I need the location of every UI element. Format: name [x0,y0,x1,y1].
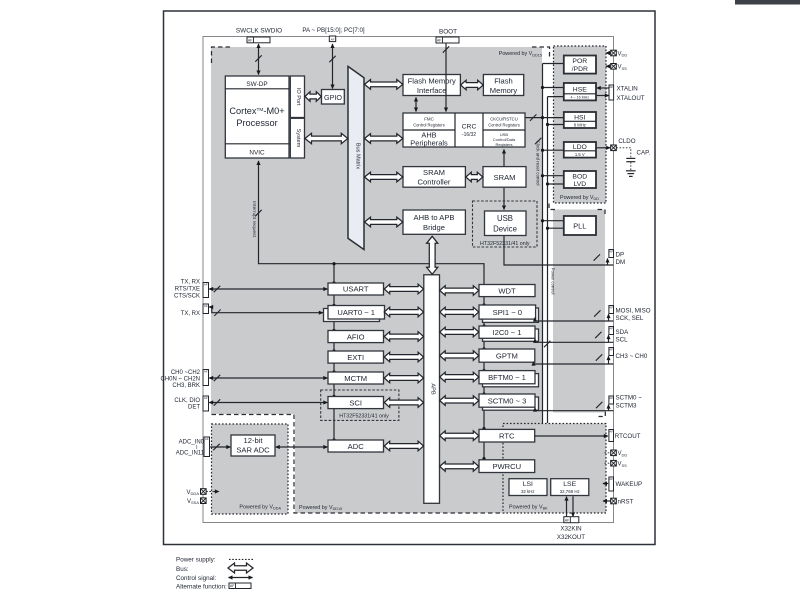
svg-text:/PDR: /PDR [572,66,588,73]
wire interrupt branch right column [483,284,485,460]
svg-text:VDDA: VDDA [187,490,200,496]
svg-text:ADC_IN0: ADC_IN0 [179,440,205,446]
svg-text:AF: AF [609,326,613,330]
svg-text:SWCLK SWDIO: SWCLK SWDIO [236,27,282,34]
AF box X32KIN X32KOUT [564,517,579,523]
wire FMI to FMC registers [415,98,417,112]
AF box WAKEUP [609,477,614,491]
slash on GPIO wire [329,56,335,62]
block LDO [564,142,596,158]
svg-text:WDT: WDT [498,286,516,295]
svg-text:PA ~ PB[15:0]; PC[7:0]: PA ~ PB[15:0]; PC[7:0] [302,27,365,34]
svg-text:CH3, BRK: CH3, BRK [172,383,200,389]
svg-text:XTALOUT: XTALOUT [617,95,645,102]
svg-text:SCL: SCL [616,336,629,343]
slash on power bus [544,341,550,347]
block SCI [328,397,384,409]
junction interrupt wire [332,262,335,265]
grey region VDD15 upper [211,47,542,414]
svg-text:WAKEUP: WAKEUP [616,481,643,488]
svg-text:TX, RX: TX, RX [181,279,200,285]
svg-text:DM: DM [616,259,626,266]
wire nRST [603,500,611,502]
svg-text:HT32F52331/41 only: HT32F52331/41 only [339,413,389,419]
svg-text:Interrupt request: Interrupt request [251,201,257,238]
wire POR stub [543,63,564,65]
slash on SCTM wire [596,402,602,408]
svg-text:-16/32: -16/32 [462,132,476,138]
bus arrow SRAM Controller to SRAM [466,172,483,182]
bus arrow APB to PWRCU [440,462,479,472]
svg-text:SRAM: SRAM [423,168,445,177]
dashed VDD15 boundary top-right corner [532,47,550,59]
wire HSE stubs [543,87,564,89]
bus arrow APB to EXTI [384,352,423,362]
block USART [328,283,384,295]
svg-text:BOD: BOD [572,173,587,180]
svg-text:SDA: SDA [616,329,630,336]
wire clock bus 1 [542,64,544,424]
block HSE [564,83,596,100]
block BOD LVD [564,171,596,188]
wire VDD pin [606,52,611,54]
bus arrow APB to WDT [440,286,479,296]
svg-text:ADC_IN11: ADC_IN11 [176,451,205,457]
IO Port strip [290,76,304,118]
svg-text:AF: AF [204,282,208,286]
svg-text:CH3 ~ CH0: CH3 ~ CH0 [616,353,648,360]
wire XTALIN to HSE [597,87,609,89]
svg-text:Device: Device [493,225,517,234]
svg-text:LSE: LSE [563,481,576,488]
svg-text:Bus Matrix: Bus Matrix [354,143,360,170]
svg-text:32,768 Hz: 32,768 Hz [560,489,580,494]
svg-text:CRC: CRC [462,124,477,131]
grey region right (PLL/power) [553,210,605,413]
svg-text:SCTM0 ~ 3: SCTM0 ~ 3 [488,397,527,406]
bus arrow APB to AFIO [384,332,423,342]
wire HSI stubs [543,117,564,119]
svg-text:DP: DP [616,251,625,258]
legend power supply symbol [229,558,253,560]
outer frame [164,11,656,545]
wire interrupt branch left column [333,264,335,440]
svg-text:CH0N ~ CH2N: CH0N ~ CH2N [160,376,200,382]
inner diagram border [203,37,614,523]
wire LDO to CLDO pin [597,147,611,149]
wire BOOT to FMC [445,44,447,112]
svg-text:32 kHz: 32 kHz [521,489,535,494]
wire MCTM external signals [209,377,327,379]
block HSI [564,112,596,128]
AF box SCTM pins [609,396,614,404]
svg-text:Control Registers: Control Registers [488,123,520,128]
svg-text:Controller: Controller [418,178,451,187]
AF box RTCOUT [609,429,614,441]
block LSE [551,479,589,496]
svg-text:PWRCU: PWRCU [492,462,521,471]
bus arrow APB to UART [384,307,423,317]
slash on interrupt request wire [255,210,261,216]
svg-text:RTCOUT: RTCOUT [615,433,641,440]
block PLL [564,216,596,235]
slash on clock bus [535,138,541,144]
svg-text:12-bit: 12-bit [244,436,264,445]
slash on SPI wire [594,310,600,316]
svg-text:SW-DP: SW-DP [246,81,267,88]
svg-text:Alternate function:: Alternate function: [176,584,227,591]
svg-text:FMC: FMC [424,117,434,122]
legend control signal symbol [229,577,253,579]
svg-text:Memory: Memory [490,86,518,95]
slash on CKCU wire [530,114,536,120]
svg-text:LVD: LVD [573,181,586,188]
AF box XTALIN XTALOUT [609,85,614,100]
block MCTM [328,372,384,384]
AF box USART pins [203,282,209,297]
svg-text:Powered by VDD: Powered by VDD [560,195,599,201]
legend alternate function symbol [229,583,251,589]
dashed box HT32F52331/41 only (SCI) [321,390,399,420]
bus arrow APB to MCTM [384,373,423,383]
svg-text:NVIC: NVIC [249,149,265,156]
wire CKCU control signal [526,117,543,119]
block UART0-1 stacked [324,309,380,322]
bus arrow APB to RTC [440,431,479,441]
svg-text:AF: AF [609,249,613,253]
wire SRAM to USB Device [503,188,505,210]
junction dots right column [482,303,485,306]
svg-text:AF: AF [230,584,235,588]
svg-text:SAR ADC: SAR ADC [236,446,270,455]
bus arrow APB to GPTM [440,351,479,361]
block EXTI [328,351,384,363]
bus arrow APB to ADC [384,441,423,451]
svg-text:Bridge: Bridge [423,223,445,232]
slash on UART wire [214,310,220,316]
svg-text:AF: AF [331,38,335,42]
svg-text:1.5 V: 1.5 V [575,152,585,157]
block AHB to APB Bridge [403,210,465,234]
wire WAKEUP [603,483,608,485]
svg-text:X32KIN: X32KIN [560,525,581,532]
svg-text:AF: AF [609,85,613,89]
svg-text:ADC: ADC [348,442,365,451]
svg-text:AF: AF [204,304,208,308]
bus arrow APB to SPI [440,307,479,317]
svg-text:CLK, DIO: CLK, DIO [174,398,200,404]
bus arrow System to Bus Matrix [305,133,348,143]
svg-text:Clock and reset control: Clock and reset control [535,141,540,186]
svg-text:AF: AF [609,429,613,433]
slash on GPTM wire [596,354,602,360]
svg-text:BOOT: BOOT [439,28,457,35]
svg-text:I2C0 ~ 1: I2C0 ~ 1 [493,328,522,337]
svg-text:Registers: Registers [496,142,513,147]
wire USB DP DM [504,236,613,265]
svg-text:VDD: VDD [618,451,628,457]
dark window bar fragment top-right [735,0,800,5]
svg-text:Flash Memory: Flash Memory [408,76,456,85]
svg-text:RTS/TXE: RTS/TXE [175,286,200,292]
block GPTM [479,349,535,362]
block I2C0-1 stacked [483,329,539,341]
bus arrow APB to BFTM [440,372,479,382]
svg-text:HSI: HSI [574,114,585,121]
wire USB registers to SRAM [503,150,505,167]
block PWRCU [479,460,535,473]
block POR/PDR [564,56,596,74]
grey region VDD15 lower [295,414,542,513]
bus arrow APB to SCTM [440,396,479,406]
svg-text:VSS: VSS [618,65,628,71]
svg-text:AF: AF [204,369,208,373]
block Flash Memory Interface [403,75,460,96]
slash on SCI wire [214,399,220,405]
capacitor on CLDO [616,148,631,158]
AF box UART pins [203,304,209,314]
svg-text:LSI: LSI [523,481,533,488]
wire SCTM external signals [535,408,613,411]
svg-text:AF: AF [248,39,253,43]
junction dots left column [332,281,335,284]
svg-text:MOSI, MISO: MOSI, MISO [616,307,651,314]
svg-text:VSS: VSS [618,462,628,468]
block AHB peripherals / control registers [403,113,525,147]
svg-text:AF: AF [205,437,209,441]
wire VSS pin [606,65,611,67]
AF box SPI pins [609,305,614,313]
slash on BOOT wire [443,46,449,52]
svg-text:Flash: Flash [494,76,513,85]
svg-text:SCK, SEL: SCK, SEL [616,315,644,322]
bus arrow Bus Matrix to AHB-APB Bridge [365,217,403,227]
svg-text:EXTI: EXTI [347,353,364,362]
svg-text:BFTM0 ~ 1: BFTM0 ~ 1 [488,373,526,382]
pin VDD backup [605,452,611,454]
bus arrow FMI to Flash Memory [461,80,484,90]
block RTC [479,429,535,442]
wire RTC to RTCOUT [535,435,608,437]
bus arrow IO Port to GPIO [305,92,321,102]
bus arrow bridge to APB [427,236,438,274]
bus arrow APB to I2C [440,327,479,337]
wire clock bus 2 [547,97,549,423]
svg-text:GPIO: GPIO [324,93,342,102]
svg-text:LDO: LDO [573,144,587,151]
block Flash Memory [483,75,523,96]
svg-text:AF: AF [609,305,613,309]
slash on ADC input wire [213,444,219,450]
block SRAM [483,167,526,188]
dashed VDD15 boundary PLL region top brackets [549,204,557,210]
ground symbol [626,170,636,172]
block 12-bit SAR ADC [231,435,275,456]
svg-text:PLL: PLL [573,221,586,230]
AF box MCTM pins [203,369,209,385]
AF box BOOT [436,37,459,43]
AF box GPTM pins [609,347,614,355]
dashed VDD15 boundary right lower bracket [599,412,606,417]
svg-text:SCI: SCI [349,398,362,407]
wire interrupt request from NVIC to peripherals [259,161,485,284]
svg-text:CKCU/RSTCU: CKCU/RSTCU [490,117,517,122]
APB bus bar [424,275,440,504]
svg-text:Peripherals: Peripherals [410,139,448,148]
svg-text:Powered by VBK: Powered by VBK [509,505,548,511]
svg-text:AF: AF [609,347,613,351]
dotted power domain box Powered by VDDA [212,424,289,514]
block LSI [509,479,547,496]
svg-text:CTS/SCK: CTS/SCK [174,293,200,299]
wire USART external signals [209,288,327,290]
wire LDO stub [543,149,564,151]
AF box I2C pins [609,326,614,334]
wire PLL stubs [543,220,564,222]
svg-text:AHB to APB: AHB to APB [414,213,455,222]
svg-text:XTALIN: XTALIN [617,85,638,92]
pin VDDA [201,489,207,495]
svg-text:POR: POR [572,58,587,65]
block SPI1-0 stacked [483,308,539,322]
wire ADC inputs [210,446,230,448]
svg-text:CLDO: CLDO [618,138,635,145]
wire port pins to GPIO [332,44,334,89]
svg-text:Processor: Processor [236,118,277,128]
slash on DP DM wire [594,254,600,260]
svg-text:HT32F52331/41 only: HT32F52331/41 only [480,241,530,247]
wire X32KIN to LSE [566,497,568,517]
block SCTM0-3 stacked [483,397,539,410]
pin CLDO [611,145,617,151]
block USB Device [485,211,527,236]
svg-text:DET: DET [188,405,200,411]
svg-text:Control signal:: Control signal: [176,575,217,582]
bus arrow Bus Matrix to AHB Peripherals [365,134,403,144]
svg-text:CH0 ~CH2: CH0 ~CH2 [171,370,201,376]
svg-text:Control Registers: Control Registers [413,123,445,128]
pin nRST [611,498,617,504]
wire SAR ADC to ADC [276,446,328,448]
svg-text:VDD: VDD [618,51,628,57]
svg-text:IO Port: IO Port [295,88,301,106]
svg-text:SCTM0 ~: SCTM0 ~ [616,394,643,401]
bus arrow APB to SCI [384,398,423,408]
svg-text:AF: AF [437,39,442,43]
svg-text:MCTM: MCTM [344,374,367,383]
GPIO block [322,90,345,105]
block AFIO [328,331,384,343]
wire LSE to X32KOUT [572,496,574,516]
wire SPI external signals [535,318,613,322]
svg-text:SRAM: SRAM [494,173,516,182]
wire UART external signals [209,307,323,313]
bus arrow APB to USART [384,284,423,294]
pin VSSA [201,498,207,504]
svg-text:AF: AF [204,396,208,400]
svg-text:SCTM3: SCTM3 [616,402,638,409]
svg-text:TX, RX: TX, RX [181,311,200,317]
legend bus symbol [228,563,253,573]
wire HSE to XTALOUT [597,95,609,97]
svg-text:USB: USB [497,214,513,223]
block WDT [479,285,535,297]
slash on MCTM wire [214,375,220,381]
processor Cortex-M0+ [225,76,289,158]
svg-text:HSE: HSE [573,87,587,94]
svg-text:Interface: Interface [417,86,447,95]
pin VSS backup [605,462,611,464]
svg-text:Bus:: Bus: [176,566,189,573]
dotted power domain box Powered by VDD [554,46,607,203]
bus matrix [348,66,364,249]
block BFTM0-1 stacked [483,374,539,387]
AF box DP DM [609,249,614,257]
wire I2C external signals [535,339,613,343]
svg-text:AFIO: AFIO [347,332,365,341]
svg-text:CAP.: CAP. [637,150,651,157]
svg-text:AF: AF [565,518,570,522]
svg-text:APB: APB [430,383,436,394]
AF box SCI pins [203,396,209,411]
svg-text:Power control: Power control [551,268,556,295]
slash on I2C wire [595,332,601,338]
svg-text:GPTM: GPTM [496,351,518,360]
wire SWCLK to SW-DP [258,44,260,75]
svg-text:8 MHz: 8 MHz [574,123,586,128]
dashed VDD15 boundary bottom-left notch [212,415,503,514]
dashed box HT32F52331/41 only (USB) [473,201,538,247]
bus arrow Bus Matrix to Flash Memory Interface [365,80,403,90]
svg-text:RTC: RTC [499,432,515,441]
slash on USART wire [214,286,220,292]
block ADC [328,440,384,452]
wire GPTM external signals [534,362,614,364]
dotted power domain box Powered by VBK [503,424,606,514]
svg-text:Power supply:: Power supply: [176,557,216,564]
pin VDD [611,50,617,56]
svg-text:nRST: nRST [618,498,634,505]
svg-text:AF: AF [609,477,613,481]
System strip [290,118,304,158]
svg-text:System: System [295,129,301,148]
block SRAM Controller [403,167,465,188]
svg-text:USART: USART [343,285,369,294]
pin VSS [611,64,617,70]
slash on SWCLK wire [255,55,261,61]
dashed VDD15 boundary top-left corner [212,47,231,65]
AF box PA PB PC port pin [329,36,335,42]
svg-text:SPI1 ~ 0: SPI1 ~ 0 [493,308,522,317]
svg-text:4 ~ 16 MHz: 4 ~ 16 MHz [571,96,590,100]
wire SCI external signals [209,402,327,404]
AF box SWCLK SWDIO [247,37,270,43]
AF box ADC input pins [204,437,210,457]
svg-text:UART0 ~ 1: UART0 ~ 1 [337,308,375,317]
wire BOD stubs [543,175,564,177]
svg-text:X32KOUT: X32KOUT [557,534,585,541]
bus arrow Bus Matrix to SRAM Controller [365,172,403,182]
svg-text:VSSA: VSSA [187,499,199,505]
svg-text:AF: AF [609,396,613,400]
